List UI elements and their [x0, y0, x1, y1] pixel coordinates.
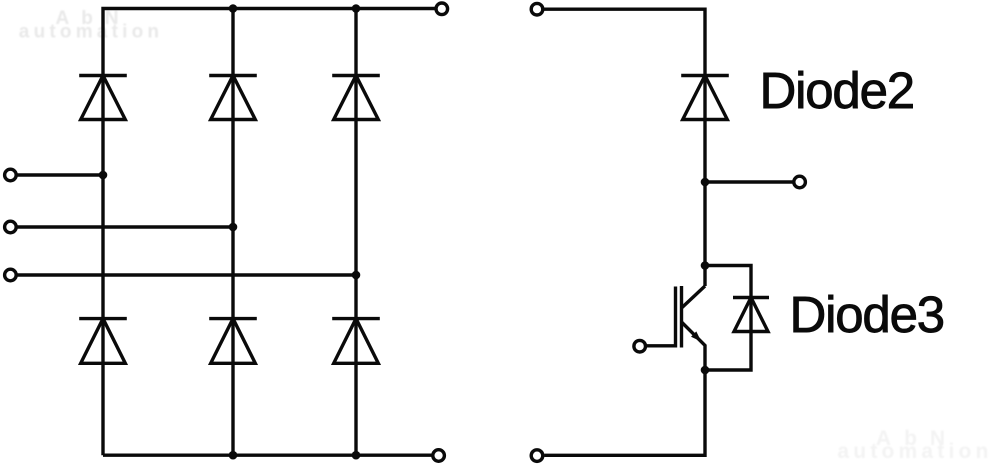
diode D5 bottom of leg 2	[209, 319, 257, 364]
watermark AbN automation (bottom-right)	[837, 427, 992, 463]
diode Diode2	[681, 76, 729, 120]
diode D6 bottom of leg 3	[332, 319, 380, 364]
diode D1 top of leg 1	[79, 76, 127, 120]
terminal: AC phase B input	[5, 221, 17, 233]
svg-text:automation: automation	[19, 22, 163, 43]
terminal: right circuit top input	[531, 3, 543, 15]
junction node: emitter / Diode3 bottom	[701, 366, 710, 375]
wire: emitter to bottom terminal	[544, 370, 705, 455]
transistor Q1 IGBT collector diagonal	[682, 286, 706, 308]
transistor Q1 emitter arrowhead	[691, 331, 701, 341]
wire: collector node to Diode3 branch (top)	[705, 266, 751, 371]
diode D3 top of leg 3	[332, 76, 380, 120]
watermark AbN automation (top-left)	[19, 8, 163, 43]
wire: top input to Diode2 branch	[544, 9, 705, 286]
junction node: bottom rail / leg 2	[229, 451, 238, 460]
diode Diode3	[733, 298, 769, 332]
wire: midpoint tap to terminal	[705, 180, 793, 183]
junction node: top rail / leg 3	[352, 4, 361, 13]
junction node: phase C / leg 3	[352, 271, 361, 280]
wire: bottom DC- rail of bridge	[103, 454, 432, 457]
transistor Q1 IGBT gate bar and gate lead	[647, 287, 676, 346]
junction node: phase B / leg 2	[229, 223, 238, 232]
wire: top DC+ rail of bridge	[103, 9, 436, 456]
junction node: bottom rail / leg 3	[352, 451, 361, 460]
svg-text:Diode3: Diode3	[790, 286, 944, 343]
wire: phase B to leg 2	[17, 225, 233, 228]
terminal: gate input	[634, 340, 646, 352]
terminal: AC phase A input	[5, 169, 17, 181]
terminal: right circuit bottom output	[531, 450, 543, 462]
terminal: midpoint output	[794, 176, 806, 188]
wire: bridge leg 2 vertical	[231, 9, 234, 456]
transistor Q1 IGBT emitter diagonal	[682, 322, 706, 370]
terminal: DC+ output of bridge	[436, 3, 448, 15]
transistor Q1 IGBT channel bar	[680, 286, 683, 348]
junction node: top rail / leg 2	[229, 4, 238, 13]
wire: bridge leg 3 vertical	[354, 9, 357, 456]
junction node: collector / Diode3 top	[701, 261, 710, 270]
wire: phase A to leg 1	[17, 173, 103, 176]
wire: phase C to leg 3	[17, 273, 356, 276]
diode D4 bottom of leg 1	[79, 319, 127, 364]
svg-text:automation: automation	[837, 440, 992, 463]
terminal: AC phase C input	[5, 269, 17, 281]
svg-text:Diode2: Diode2	[760, 62, 914, 119]
junction node: phase A / leg 1	[99, 171, 108, 180]
diode D2 top of leg 2	[209, 76, 257, 120]
junction node: Diode2 cathode tap	[701, 178, 710, 187]
terminal: DC- output of bridge	[433, 450, 445, 462]
